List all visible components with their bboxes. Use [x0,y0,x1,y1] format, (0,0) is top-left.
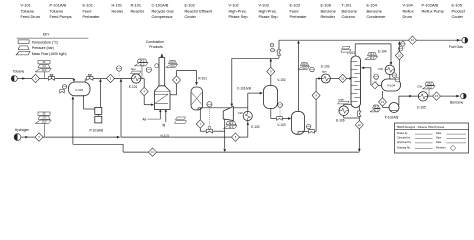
svg-text:Date: Date [436,137,442,140]
svg-text:24.0: 24.0 [140,61,145,63]
svg-text:E-102: E-102 [185,3,195,8]
svg-text:Preheater: Preheater [290,14,308,19]
svg-text:Temperature (°C): Temperature (°C) [32,41,58,45]
valve tower bottoms control [358,111,362,116]
svg-text:24.0: 24.0 [302,64,307,66]
flag overhead data [342,46,350,49]
valve purge pressure control [277,50,281,55]
svg-text:E-104: E-104 [378,50,387,54]
svg-text:Approved by: Approved by [397,141,412,144]
svg-text:H-101: H-101 [112,3,123,8]
pipe V-102 liquid to V-103 [270,109,272,119]
svg-text:Recycle Gas: Recycle Gas [152,8,174,13]
svg-text:R-101: R-101 [198,77,207,81]
vessel V-103 flash separator [292,112,305,135]
heat exchanger E-106 reboiler [339,106,349,116]
node stream 12 [355,121,363,129]
svg-text:Toluene: Toluene [50,8,64,13]
svg-text:Mass Flow (1000 kg/h): Mass Flow (1000 kg/h) [32,52,67,56]
legend temperature symbol [18,40,29,44]
svg-text:hps: hps [322,69,327,73]
pipe compressor discharge leg [224,119,226,148]
junction recycle gas riser into feed line [120,79,122,82]
pipe top gas header [232,57,279,59]
flag stream 3 data [38,112,50,115]
node stream 3 [35,133,43,141]
flag V-103 vapor data [301,63,309,66]
pipe tower bottoms [358,106,360,120]
node stream 9 [312,91,320,99]
valve toluene feed control [48,77,54,81]
instrument reflux drum level controller [374,74,379,79]
pipe E-104 to V-104 [389,75,391,80]
svg-text:TBWS Designs - Toluene HDA Pro: TBWS Designs - Toluene HDA Process [397,125,445,129]
pipe stream 2 to E-101 [115,78,132,80]
pipe V-103 vapor riser [298,43,300,112]
svg-text:C-101A/B: C-101A/B [152,3,169,8]
pipe reflux to tower [375,84,382,86]
svg-text:E-104: E-104 [367,3,378,8]
svg-text:24.0: 24.0 [229,123,234,125]
node stream 13 [395,51,403,59]
instrument V-103 level controller [307,124,311,128]
title block [395,123,469,153]
furnace H-101 heater [155,91,171,109]
vessel V-101 toluene feed drum [69,82,91,96]
svg-text:V-103: V-103 [277,123,286,127]
instrument purge pressure controllers [270,43,274,47]
svg-text:V-101: V-101 [75,88,83,92]
hydrogen feed source [14,134,21,141]
svg-text:Phase Sep.: Phase Sep. [229,14,249,19]
svg-text:Reflux: Reflux [403,8,414,13]
svg-text:E-106: E-106 [321,3,331,8]
pipe tower overhead vapor [354,44,356,56]
svg-text:Date: Date [436,141,442,144]
legend mass flow symbol [16,51,30,55]
benzene product exit [457,95,460,97]
valve quench control [206,129,212,133]
svg-text:C-101A/B: C-101A/B [237,87,251,91]
pipe V-101 to stream 2 [93,78,107,80]
junction V-103 vapor into header [297,41,299,44]
svg-text:Benzene: Benzene [342,8,357,13]
combustion products stack arrow [161,54,163,57]
svg-text:E-105: E-105 [417,106,426,110]
node stream 11 [149,148,157,156]
pipe V-104 to P-102 [382,91,384,98]
svg-text:Drawn by: Drawn by [397,132,408,135]
pump P-101A [95,107,102,114]
node stream 15 [433,92,441,100]
svg-text:R-101: R-101 [131,3,142,8]
svg-text:Reactor: Reactor [131,8,145,13]
node stream 6 [173,76,181,84]
junction from tower bottoms [358,149,360,152]
svg-text:CW: CW [238,111,243,115]
svg-text:Reboiler: Reboiler [321,14,336,19]
pipe fuel gas header [279,39,463,41]
svg-text:Drawing No.: Drawing No. [397,147,411,150]
instrument fuel gas pressure controller [401,42,405,46]
pipe H-101 to R-101 [170,94,177,96]
air inlet to furnace [159,110,161,112]
pipe reactor effluent [197,108,199,110]
instrument V-101 level controller [62,85,66,89]
flag condenser duty data [368,53,377,56]
svg-text:Benzene: Benzene [367,8,382,13]
node stream 10 [339,74,347,82]
svg-text:41.0: 41.0 [140,64,145,66]
svg-text:41.0: 41.0 [302,68,307,70]
heat exchanger E-103 tower feed preheater [321,74,330,83]
heat exchanger E-101 feed preheater [132,74,141,83]
pump P-102A/B reflux pumps [389,103,399,113]
svg-text:mps: mps [338,98,344,102]
instrument stack analyzer [146,67,151,72]
svg-text:41.0: 41.0 [229,127,234,129]
pipe toluene recycle dogleg [73,143,123,145]
svg-text:Combustion: Combustion [146,40,164,44]
svg-text:Feed: Feed [290,8,299,13]
node stream 5 [232,133,240,141]
pipe benzene product line [428,95,433,97]
svg-text:Feed Pumps: Feed Pumps [50,14,72,19]
svg-text:Reactor Effluent: Reactor Effluent [185,8,214,13]
instrument V-102 level controller [278,103,283,108]
pipe V-103 liquid to E-103 [297,132,299,135]
svg-text:V-103: V-103 [259,3,269,8]
svg-text:V-104: V-104 [403,3,414,8]
svg-text:Feed: Feed [83,8,92,13]
pipe V-101 bottom to pump suction [83,95,85,109]
reactor R-101 [191,87,203,110]
svg-text:CW: CW [378,67,383,71]
svg-text:Cooler: Cooler [185,14,197,19]
flag stream 4 data [137,59,147,62]
vessel V-102 high pressure separator [264,86,278,109]
svg-text:Cooler: Cooler [452,14,464,19]
svg-text:41.0: 41.0 [170,66,175,68]
instrument reactor temperature controller [207,102,212,107]
heat exchanger E-104 condenser [385,65,394,74]
heat exchanger E-105 product cooler [418,92,427,101]
flag stream 5 data [226,122,236,125]
svg-text:E-101: E-101 [129,85,138,89]
instrument vent controller [310,67,315,72]
pipe toluene feed line [17,78,31,80]
flag benzene product data [425,82,434,85]
svg-text:E-103: E-103 [290,3,300,8]
svg-text:24.0: 24.0 [374,107,379,109]
svg-text:P-101A/B: P-101A/B [90,128,104,132]
svg-text:Revision: Revision [436,147,446,150]
svg-text:Drum: Drum [403,14,413,19]
fuel gas product exit [457,39,460,41]
legend pressure symbol [18,46,29,50]
heat exchanger E-102 reactor effluent cooler [247,121,249,137]
vessel V-104 reflux drum [382,79,401,91]
fuel gas inlet to furnace [165,110,167,112]
instrument feed flow controller [116,66,121,71]
svg-text:24.0: 24.0 [370,54,375,56]
svg-text:Pressure (bar): Pressure (bar) [32,46,54,50]
pipe V-104 vapor to fuel gas header [398,42,400,52]
flag stream 6 data [169,61,177,64]
svg-text:Column: Column [342,14,355,19]
node stream 1 [32,74,40,82]
svg-text:E-105: E-105 [452,3,462,8]
instrument V-104 pressure controllers [392,73,396,77]
node reflux stream [372,82,379,89]
svg-text:Feed Drum: Feed Drum [21,14,40,19]
flag stream 14 data [373,105,380,108]
svg-text:41.0: 41.0 [427,87,432,89]
svg-text:Toluene: Toluene [21,8,35,13]
svg-text:Preheater: Preheater [83,14,101,19]
node stream 16 [409,36,417,44]
svg-text:V-102: V-102 [277,78,286,82]
pipe compressor suction from top header [231,58,233,104]
node stream 14 [379,98,387,106]
furnace coil [155,93,168,95]
svg-text:E-102: E-102 [251,125,260,129]
pipe P-102 discharge [398,96,400,105]
pipe hydrogen feed line [21,136,35,138]
svg-text:Products: Products [149,45,163,49]
svg-text:P-102A/B: P-102A/B [385,115,399,119]
svg-text:Date: Date [436,132,442,135]
svg-text:CW: CW [417,85,422,89]
svg-text:E-101: E-101 [83,3,93,8]
svg-text:High-Pres.: High-Pres. [229,8,247,13]
svg-text:Checked by: Checked by [397,137,411,140]
pipe V-101 top nozzle [84,79,86,83]
svg-text:E-106: E-106 [336,119,345,123]
svg-text:Fuel Gas: Fuel Gas [449,45,463,49]
pipe recycle gas riser [120,81,122,137]
junction pump discharge [99,79,101,82]
svg-text:Hydrogen: Hydrogen [15,128,29,132]
svg-text:Benzene: Benzene [321,8,336,13]
svg-text:Benzene: Benzene [450,101,463,105]
compressor C-101A/B [223,106,233,120]
svg-text:24.0: 24.0 [170,62,175,64]
svg-text:Heater: Heater [112,8,124,13]
svg-text:24.0: 24.0 [427,84,432,86]
svg-text:Toluene: Toluene [13,70,25,74]
pipe reboiler loop [344,103,351,105]
svg-text:V-102: V-102 [229,3,239,8]
pipe quench branch [199,108,201,120]
svg-text:fg: fg [163,123,166,127]
svg-text:41.0: 41.0 [370,58,375,60]
svg-text:Reflux Pump: Reflux Pump [422,8,444,13]
node stream 8 [267,67,275,75]
svg-text:Condenser: Condenser [367,14,387,19]
node stream 4 [140,87,148,95]
pipe E-101 to H-101 [141,78,144,80]
svg-text:41.0: 41.0 [374,110,379,112]
svg-text:E-103: E-103 [321,65,330,69]
pipe toluene recycle return riser [72,99,74,145]
pipe V-102 vapor riser [270,76,272,86]
svg-text:T-101: T-101 [342,3,352,8]
flag stream 1 data [38,61,50,64]
svg-text:P-102A/B: P-102A/B [422,3,439,8]
junction hydrogen into recycle line [117,136,120,138]
svg-text:P-101A/B: P-101A/B [50,3,67,8]
pipe E-102 to V-102 [247,93,249,108]
node stream 2 [107,74,115,82]
svg-text:Product: Product [452,8,466,13]
svg-text:High-Pres.: High-Pres. [259,8,277,13]
pipe toluene recycle long run [123,151,148,153]
pipe recycle gas bottom run [121,136,232,138]
svg-text:V-104: V-104 [387,84,395,88]
svg-text:hps: hps [131,67,136,71]
pump P-101B [95,116,102,123]
valve V-103 bottoms [309,130,315,134]
toluene feed source [11,76,17,82]
svg-text:KEY: KEY [43,32,50,36]
flag furnace fuel data [176,117,186,120]
column T-101 benzene tower [351,56,361,108]
pipe purge riser to fuel gas header [278,55,280,58]
svg-text:Compressor: Compressor [152,14,174,19]
pipe E-103 to T-101 [330,78,338,80]
valve V-101 outlet control [87,77,93,81]
svg-text:Phase Sep.: Phase Sep. [259,14,279,19]
svg-text:V-101: V-101 [21,3,31,8]
